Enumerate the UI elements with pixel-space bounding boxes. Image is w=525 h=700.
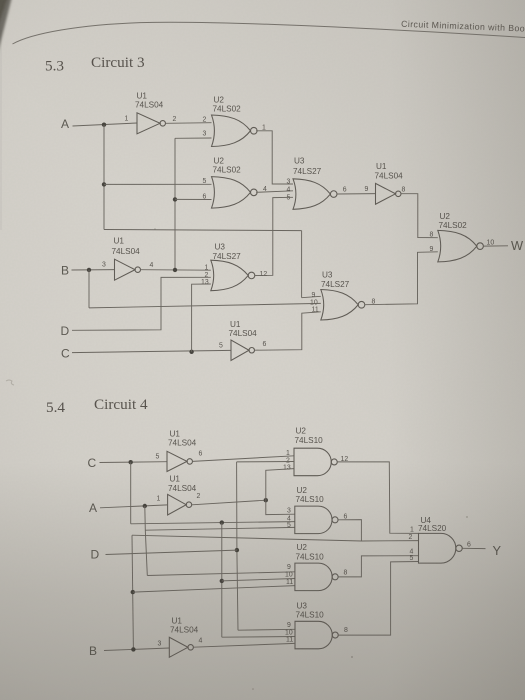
wire into U3 pin 9 <box>302 296 321 297</box>
dust speck <box>351 656 353 658</box>
node A-prime junction <box>264 498 268 502</box>
NOR gate U2 74LS02 pins 2,3-1 <box>212 115 258 147</box>
wire inverter out to U3 pin 1 <box>141 269 211 272</box>
NOR gate U2 74LS02 pins 5,6-4 <box>212 177 258 209</box>
wire into U3 pin 10 <box>222 636 295 639</box>
inverter U1 74LS04 pins 3-4 <box>115 259 141 280</box>
wire A-prime output <box>192 500 266 505</box>
wire W output <box>484 245 508 247</box>
wire D vertical <box>237 462 238 630</box>
NOR gate U2 74LS02 pins 8,9-10 <box>438 230 484 262</box>
wire C input <box>72 350 231 352</box>
wire D input <box>106 550 237 554</box>
wire D net to NAND pin 2 <box>237 461 294 463</box>
NAND gate U3 74LS10 pins 9,10,11-8 <box>295 621 338 649</box>
node A junction <box>102 123 106 127</box>
wire D input <box>72 277 211 330</box>
wire inverter out to U3 pin 11 <box>255 312 321 350</box>
node B-prime out junction <box>173 268 177 272</box>
wire A to NAND pin 5 <box>145 527 294 530</box>
wire long row to U4 pin 2 <box>132 535 419 541</box>
wire NOR2 output to U3 pin 4 <box>256 191 293 193</box>
node C branch <box>220 520 224 524</box>
dark page edge top-left corner <box>0 0 12 56</box>
wire into U2 pin 6 <box>175 198 212 200</box>
wire U1 output to U2 pin 2 <box>166 122 212 125</box>
node B junction <box>87 268 91 272</box>
header rule curve <box>13 22 525 44</box>
wire B to U3 pin 10 <box>89 303 321 308</box>
node D junction <box>235 548 239 552</box>
wire U3 out 12 up to U3 pin 5 <box>255 197 293 275</box>
wire into U2 pin 10 <box>222 579 295 581</box>
wire B-prime vertical <box>174 138 176 269</box>
wire NAND4 output to U4 pin 5 <box>339 562 419 636</box>
wire A input <box>100 505 168 508</box>
inverter U1 74LS04 pins 5-6 <box>231 340 255 361</box>
node A junction <box>143 504 147 508</box>
wire C to NAND pin 4 <box>131 522 295 524</box>
wire U3 output to inverter <box>337 193 376 195</box>
dust speck <box>154 228 156 230</box>
node A to pin 5 junction <box>102 182 106 186</box>
wire B input <box>72 269 115 271</box>
wire B-prime to U3 pin 11 <box>194 643 296 647</box>
node C junction <box>129 460 133 464</box>
wire Y output <box>462 547 485 549</box>
inverter U1 74LS04 pins 3-4 circuit4 <box>169 637 193 657</box>
wire A to U2 pin 9 <box>147 572 295 576</box>
wire A vertical <box>145 506 148 576</box>
wire C branch vertical <box>221 523 223 638</box>
NOR gate U3 74LS27 pins 9,10,11-8 <box>321 290 365 321</box>
node B-prime to pin 6 <box>173 197 177 201</box>
wire A input <box>73 123 138 126</box>
wire C input <box>100 461 168 464</box>
inverter U1 74LS04 pins 1-2 <box>137 113 166 134</box>
wire into U2 pin 11 <box>133 586 295 593</box>
inverter U1 74LS04 pins 9-8 <box>376 183 402 204</box>
node B junction circuit4 <box>131 647 135 651</box>
wire C-prime to NAND pin 1 <box>193 456 294 462</box>
smudge artifact left margin <box>6 380 14 385</box>
NOR gate U3 74LS27 pins 3,4,5-6 <box>293 179 337 210</box>
wire into U2 pin 3 <box>175 137 212 139</box>
NAND gate U4 74LS20 pins 1,2,4,5-6 <box>419 533 463 563</box>
inverter U1 74LS04 pins 1-2 circuit4 <box>168 494 192 515</box>
node B to pin 11 <box>131 590 135 594</box>
wire B vertical <box>88 270 90 308</box>
faint left page edge <box>0 30 2 230</box>
NOR gate U3 74LS27 pins 1,2,13-12 <box>211 260 255 291</box>
wire inverter out to NOR pin 8 <box>401 194 438 238</box>
wire into U2 pin 5 <box>104 183 212 185</box>
wire C up to U3 pin 13 <box>192 284 211 352</box>
wire U3 out to NOR pin 9 <box>365 252 438 305</box>
wire A vertical <box>103 125 105 230</box>
wire NAND1 output to U4 pin 1 <box>338 462 419 534</box>
wire B vertical <box>132 535 133 649</box>
dust speck <box>252 688 254 690</box>
NAND gate U2 74LS10 pins 3,4,5-6 <box>295 506 338 533</box>
wire NAND2 output to U4 pin 2 <box>338 520 361 541</box>
dust speck <box>466 516 468 518</box>
node C to pin 10 <box>220 579 224 583</box>
wire A horizontal run <box>104 230 302 231</box>
inverter U1 74LS04 pins 5-6 circuit4 <box>167 451 193 471</box>
wire NOR1 output <box>256 131 293 184</box>
wire A down to pin 9 <box>301 231 303 298</box>
NAND gate U2 74LS10 pins 9,10,11-8 <box>295 563 338 591</box>
node C junction <box>189 350 193 354</box>
wire C vertical <box>130 462 132 524</box>
wire B input <box>104 648 169 651</box>
wire A-prime up to pin 13 <box>266 469 294 501</box>
NAND gate U2 74LS10 pins 1,2,13-12 <box>294 448 337 476</box>
wire A-prime down to pin 3 <box>266 500 295 514</box>
wire into U3 pin 9 <box>238 628 295 631</box>
wire NAND3 output to U4 pin 4 <box>338 556 418 577</box>
